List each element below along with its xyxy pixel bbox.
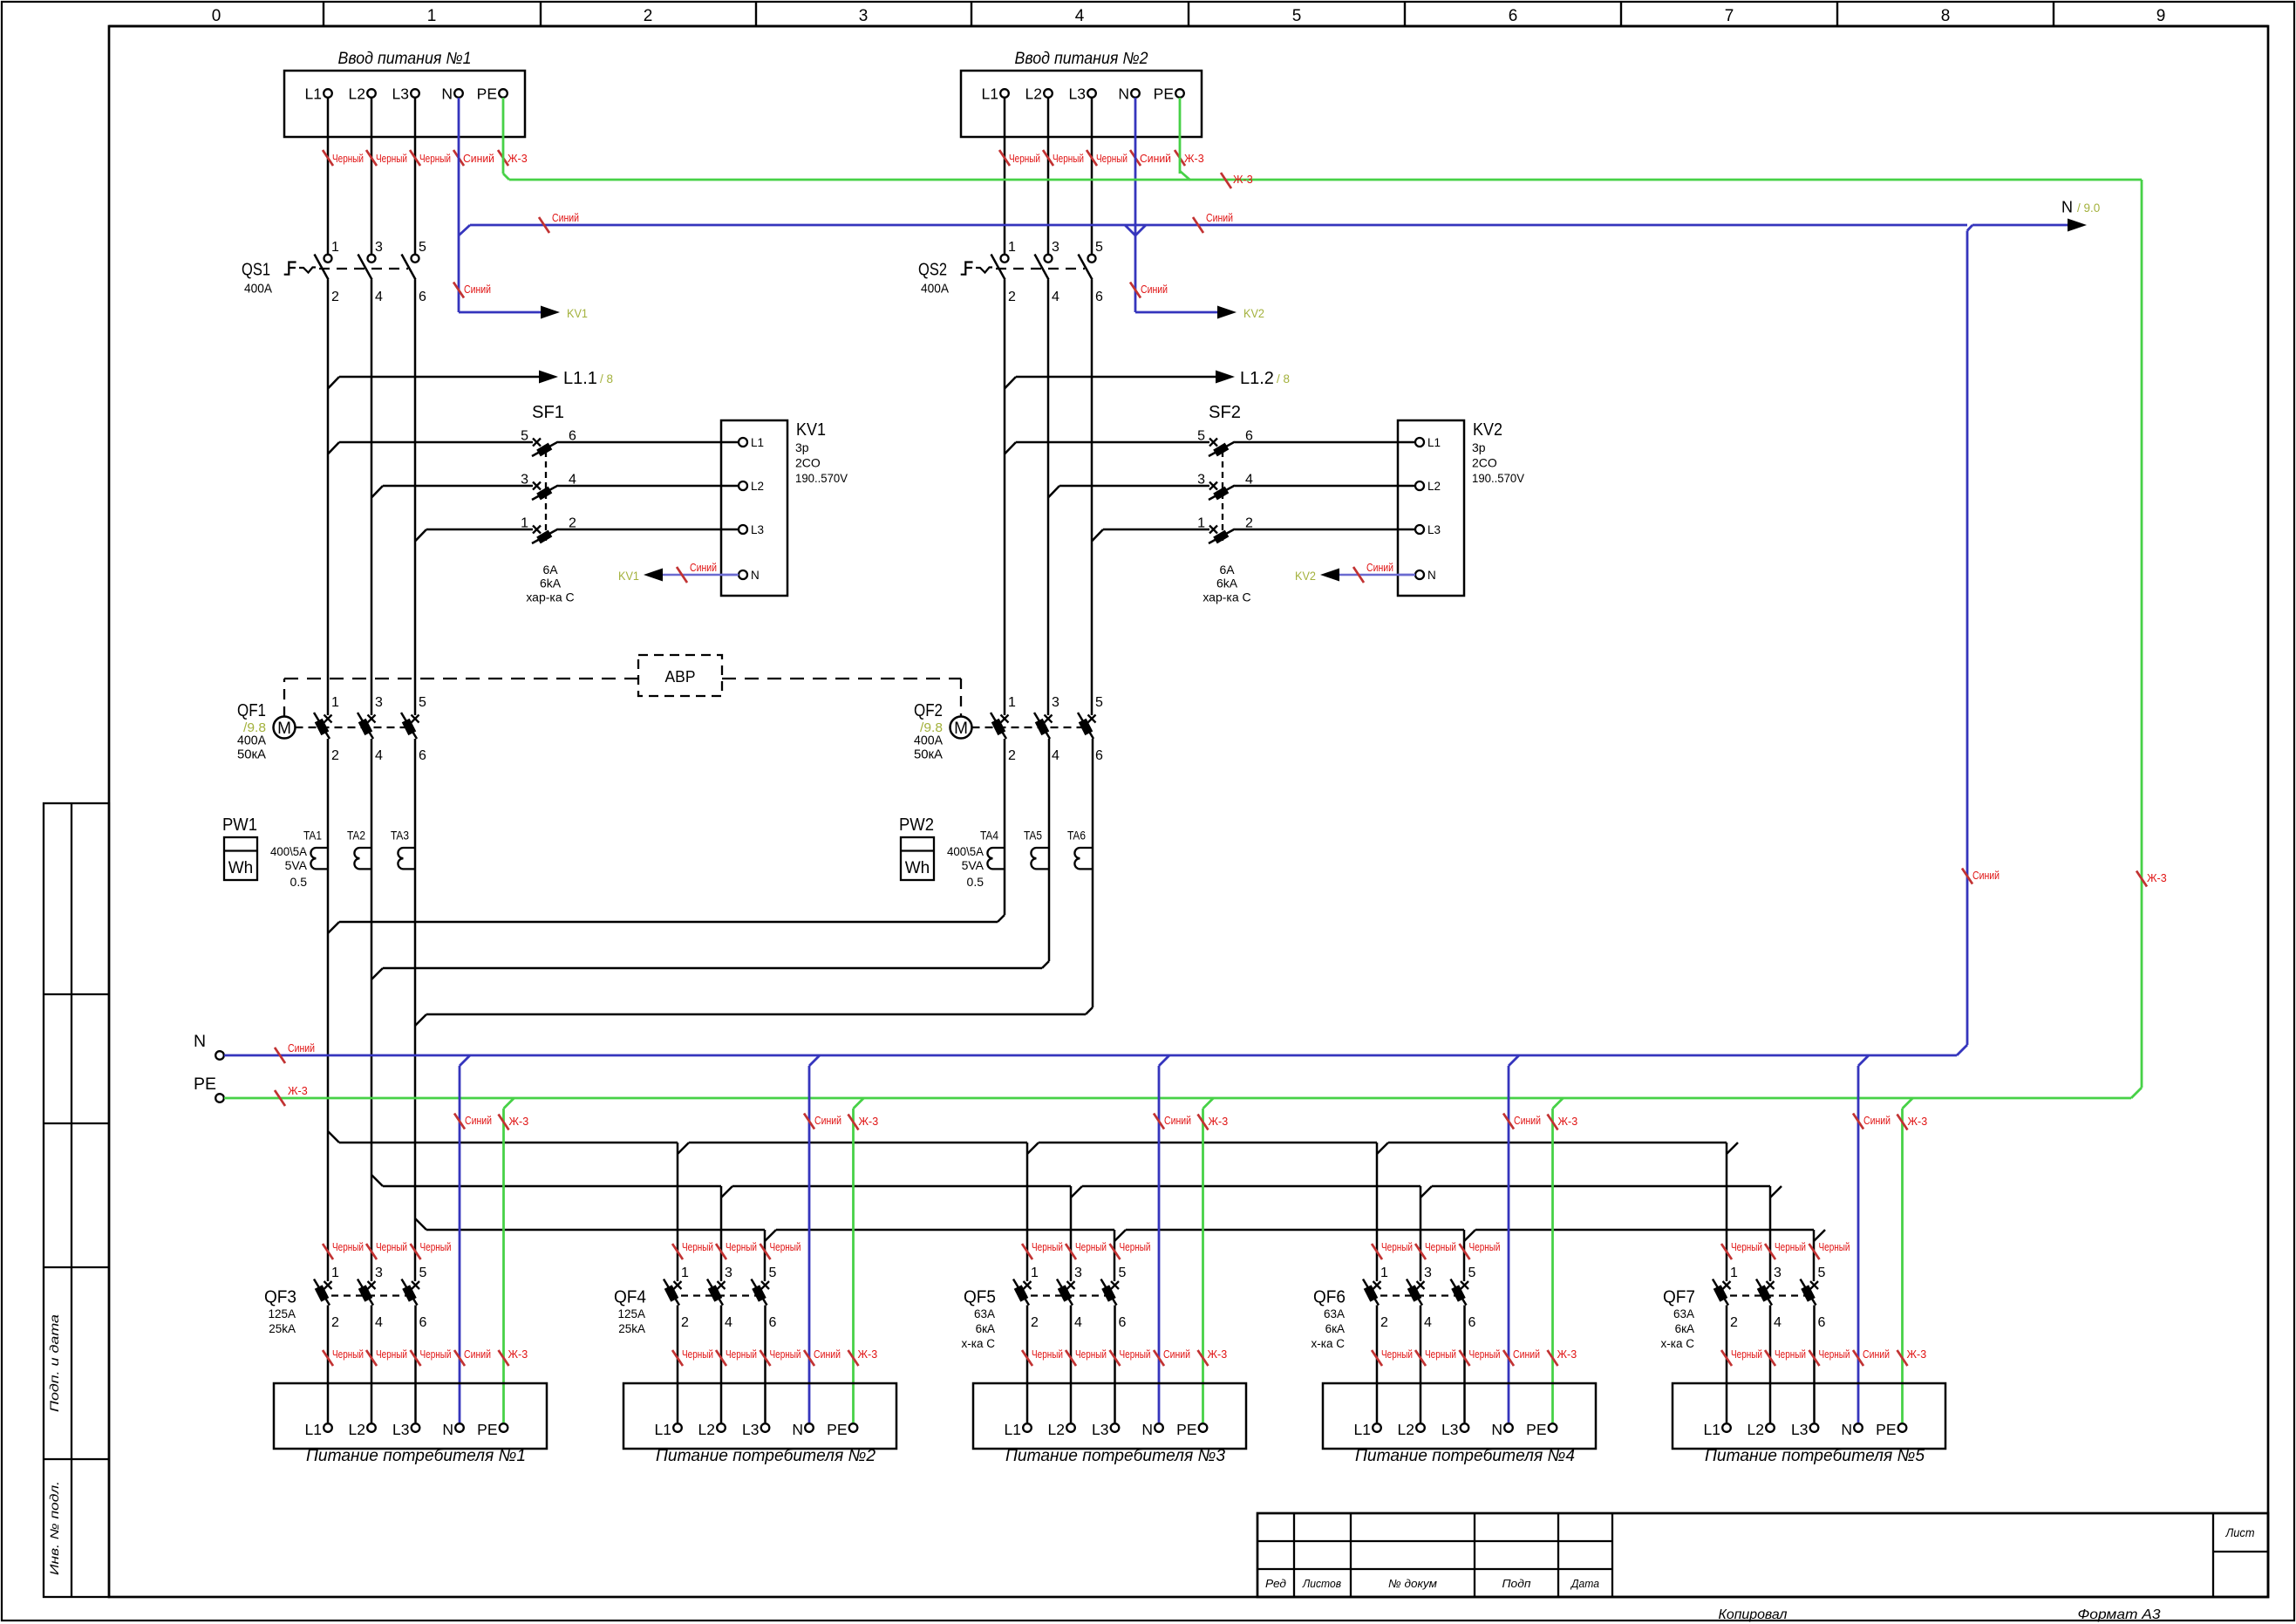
svg-text:TA4: TA4 xyxy=(980,829,998,843)
svg-text:Синий: Синий xyxy=(1863,1115,1891,1127)
svg-text:Питание потребителя №2: Питание потребителя №2 xyxy=(656,1447,875,1465)
input 2 terminal L1 xyxy=(1000,89,1009,98)
switch QS2 drive symbol F xyxy=(961,263,973,275)
consumer 4 terminal L1 xyxy=(1373,1423,1381,1432)
wire input 2 PE (green) down xyxy=(1179,98,1182,174)
consumer 4 terminal L3 xyxy=(1461,1423,1469,1432)
colour callout Ж-3 on PE drop 1 xyxy=(499,1115,509,1130)
svg-text:400A: 400A xyxy=(237,734,266,748)
svg-text:Черный: Черный xyxy=(1032,1241,1063,1253)
svg-text:7: 7 xyxy=(1725,7,1734,25)
consumer 3 terminal L1 xyxy=(1023,1423,1032,1432)
wire QF4 pole 4 to consumer box xyxy=(720,1306,723,1423)
svg-text:400\5A: 400\5A xyxy=(947,844,984,858)
svg-text:Черный: Черный xyxy=(332,153,364,165)
colour callout Синий on N1 vertical xyxy=(453,283,464,298)
svg-text:Синий: Синий xyxy=(464,1348,491,1361)
svg-text:5: 5 xyxy=(1292,7,1302,25)
wire QS2 pole 4 down to QF2 xyxy=(1047,280,1050,716)
colour callout Синий on N drop 4 xyxy=(1503,1114,1514,1129)
wire branch phase 1 to SF1 xyxy=(328,442,339,454)
svg-text:0: 0 xyxy=(212,7,221,25)
svg-text:SF1: SF1 xyxy=(532,403,564,422)
bus PE right vertical (green) down xyxy=(2141,180,2143,1088)
svg-text:5VA: 5VA xyxy=(285,858,308,872)
svg-text:TA2: TA2 xyxy=(347,829,365,843)
svg-text:Ж-3: Ж-3 xyxy=(1558,1116,1578,1128)
svg-text:L3: L3 xyxy=(1427,523,1441,536)
svg-text:2: 2 xyxy=(1008,748,1016,763)
relay KV1 terminal L1 xyxy=(721,441,739,444)
automatic transfer switch ABP box (dashed) xyxy=(638,655,722,696)
svg-text:6A: 6A xyxy=(542,563,558,577)
consumer 1 terminal L1 xyxy=(324,1423,332,1432)
input 2 terminal N xyxy=(1131,89,1140,98)
svg-text:Синий: Синий xyxy=(464,283,491,296)
svg-text:PE: PE xyxy=(477,85,497,103)
svg-text:QF4: QF4 xyxy=(614,1288,646,1307)
breaker SF2 pole 1-2 xyxy=(1209,526,1217,534)
wire input 1 L1 down to QS1 xyxy=(327,98,330,255)
consumer 2 terminal L2 xyxy=(717,1423,726,1432)
consumer 1 terminal L3 xyxy=(412,1423,420,1432)
arrow from KV2 N xyxy=(1320,569,1339,582)
wire branch phase 2 to SF2 xyxy=(1048,486,1059,498)
svg-text:1: 1 xyxy=(427,7,437,25)
switch QS1 linkage dashed line xyxy=(319,268,408,270)
bus PE horizontal (green) top xyxy=(509,179,2142,181)
relay KV2 terminal L1 xyxy=(1398,441,1415,444)
breaker SF2 linkage dashed xyxy=(1222,451,1223,542)
wire PE drop to consumer 5 (green) xyxy=(1903,1098,1913,1109)
svg-text:6кА: 6кА xyxy=(976,1322,995,1335)
svg-text:Черный: Черный xyxy=(1381,1348,1413,1361)
bus PE distribution (green) xyxy=(224,1097,2131,1100)
breaker QF2 pole 1-2 xyxy=(1001,715,1009,723)
svg-text:1: 1 xyxy=(1380,1266,1388,1280)
svg-text:5: 5 xyxy=(1818,1266,1826,1280)
svg-text:L3: L3 xyxy=(742,1421,759,1438)
svg-text:L1.1: L1.1 xyxy=(563,369,597,388)
svg-text:Формат А3: Формат А3 xyxy=(2078,1607,2161,1622)
consumer 3 terminal PE xyxy=(1199,1423,1208,1432)
svg-text:SF2: SF2 xyxy=(1209,403,1241,422)
wire input 1 N (blue) down to KV1 arrow xyxy=(458,235,460,312)
svg-text:Черный: Черный xyxy=(1469,1241,1501,1253)
wire input 2 L3 down to QS2 xyxy=(1091,98,1093,255)
colour callouts Черный below QF4 xyxy=(672,1350,683,1366)
svg-text:N: N xyxy=(792,1421,803,1438)
arrow branch L1.2 xyxy=(1005,377,1016,389)
relay KV1 terminal L2 xyxy=(721,485,739,488)
consumer 5 terminal L3 xyxy=(1810,1423,1819,1432)
svg-text:Черный: Черный xyxy=(1075,1241,1107,1253)
svg-text:L1: L1 xyxy=(305,1421,322,1438)
switch QS1 drive symbol F xyxy=(284,263,296,275)
wire branch phase 2 to SF1 xyxy=(371,486,383,498)
breaker QF2 pole 5-6 xyxy=(1088,715,1096,723)
consumer box Питание потребителя №3 xyxy=(973,1383,1246,1449)
svg-text:PW1: PW1 xyxy=(222,815,257,835)
svg-text:Синий: Синий xyxy=(465,1115,492,1127)
svg-text:6kA: 6kA xyxy=(1216,577,1238,590)
svg-text:Копировал: Копировал xyxy=(1719,1607,1788,1622)
svg-text:400A: 400A xyxy=(921,282,949,297)
svg-text:4: 4 xyxy=(375,290,383,304)
relay KV1 terminal N xyxy=(721,574,739,577)
svg-text:2: 2 xyxy=(681,1315,689,1330)
svg-text:L2: L2 xyxy=(1398,1421,1414,1438)
svg-text:5: 5 xyxy=(1095,695,1103,710)
colour callout Ж-3 on bus PE after input 2 xyxy=(1221,173,1231,188)
wire KV1 N to coil (blue) xyxy=(659,574,739,577)
consumer 2 terminal PE xyxy=(849,1423,858,1432)
svg-text:QF2: QF2 xyxy=(914,701,943,720)
wire input 2 N (blue) down xyxy=(1134,98,1137,235)
svg-text:Ж-3: Ж-3 xyxy=(1208,1348,1228,1361)
svg-text:3: 3 xyxy=(1052,240,1059,255)
wire QF7 pole 2 to consumer box xyxy=(1726,1306,1728,1423)
svg-text:5: 5 xyxy=(419,695,426,710)
svg-text:N: N xyxy=(442,1421,453,1438)
colour callout Синий on right N vertical xyxy=(1962,869,1972,884)
wire KV1 coil feed horizontal xyxy=(459,311,541,314)
svg-text:KV2: KV2 xyxy=(1295,569,1316,583)
consumer 5 terminal L2 xyxy=(1766,1423,1775,1432)
consumer 5 terminal N xyxy=(1854,1423,1863,1432)
svg-text:Синий: Синий xyxy=(1514,1115,1541,1127)
svg-text:Черный: Черный xyxy=(376,1241,407,1253)
colour callouts Черный below QF7 xyxy=(1721,1350,1732,1366)
svg-text:6: 6 xyxy=(1095,748,1103,763)
svg-text:2: 2 xyxy=(1730,1315,1738,1330)
svg-text:Ж-3: Ж-3 xyxy=(1209,1116,1229,1128)
svg-text:Ж-3: Ж-3 xyxy=(2147,872,2167,884)
colour callout Синий on N drop 1 xyxy=(454,1114,465,1129)
svg-text:Синий: Синий xyxy=(814,1115,841,1127)
ruler ticks xyxy=(323,2,324,26)
svg-text:1: 1 xyxy=(331,1266,339,1280)
svg-text:2CO: 2CO xyxy=(795,456,821,470)
svg-text:QF3: QF3 xyxy=(264,1288,296,1307)
svg-text:125A: 125A xyxy=(268,1307,296,1320)
consumer 2 terminal L1 xyxy=(673,1423,682,1432)
svg-text:Черный: Черный xyxy=(1009,153,1040,165)
svg-text:Черный: Черный xyxy=(1096,153,1128,165)
svg-text:6: 6 xyxy=(1095,290,1103,304)
svg-text:хар-ка C: хар-ка C xyxy=(526,590,574,604)
svg-text:2: 2 xyxy=(331,290,339,304)
svg-text:4: 4 xyxy=(1075,7,1085,25)
svg-text:Ввод питания №1: Ввод питания №1 xyxy=(338,50,472,68)
consumer 3 terminal L3 xyxy=(1111,1423,1120,1432)
wire QS1 pole 2 down to QF1 xyxy=(327,280,330,716)
svg-text:N: N xyxy=(194,1032,206,1051)
wire N drop to consumer 4 (blue) xyxy=(1509,1055,1519,1066)
svg-text:QF5: QF5 xyxy=(964,1288,996,1307)
svg-text:PW2: PW2 xyxy=(899,815,934,835)
switch QS2 pole 3-4 xyxy=(1045,255,1053,263)
switch QS1 pole 3-4 xyxy=(368,255,376,263)
svg-text:Ж-3: Ж-3 xyxy=(859,1116,879,1128)
AVR linkage dashed lines xyxy=(283,679,285,717)
svg-text:L3: L3 xyxy=(1092,1421,1108,1438)
colour callout Синий on KV2 N wire xyxy=(1353,567,1364,583)
input 1 terminal L1 xyxy=(324,89,332,98)
svg-text:N: N xyxy=(2061,199,2073,216)
input 1 terminal L3 xyxy=(411,89,419,98)
svg-text:1: 1 xyxy=(1197,516,1205,531)
svg-text:Черный: Черный xyxy=(420,1241,452,1253)
breaker QF2 pole 3-4 xyxy=(1045,715,1053,723)
svg-text:Синий: Синий xyxy=(1972,870,2000,882)
svg-text:/ 8: / 8 xyxy=(600,372,613,386)
svg-text:50кА: 50кА xyxy=(237,747,266,762)
wire QF6 pole 6 to consumer box xyxy=(1463,1306,1466,1423)
svg-text:6: 6 xyxy=(769,1315,777,1330)
svg-text:L3: L3 xyxy=(1069,85,1086,103)
wire QS2 pole 6 down to QF2 xyxy=(1091,280,1093,716)
svg-text:0.5: 0.5 xyxy=(967,875,984,889)
relay KV2 terminal L3 xyxy=(1398,529,1415,531)
svg-text:Черный: Черный xyxy=(1731,1241,1762,1253)
breaker SF1 linkage dashed xyxy=(545,451,547,542)
breaker QF7 linkage dashed xyxy=(1718,1294,1815,1296)
consumer 5 terminal L1 xyxy=(1722,1423,1731,1432)
consumer 2 terminal N xyxy=(805,1423,814,1432)
svg-text:3p: 3p xyxy=(795,440,809,454)
tie wire L1 between QF1 and QF2 outputs xyxy=(328,922,339,933)
breaker QF3 linkage dashed xyxy=(319,1294,416,1296)
ruler bottom line / frame top xyxy=(109,25,2268,28)
svg-text:M: M xyxy=(954,720,968,738)
svg-text:Ж-3: Ж-3 xyxy=(1908,1116,1928,1128)
svg-text:№ докум: № докум xyxy=(1388,1577,1437,1590)
colour callout Синий on N bus xyxy=(275,1047,285,1063)
svg-text:L1: L1 xyxy=(751,436,764,449)
wire input 2 L2 down to QS2 xyxy=(1047,98,1050,255)
svg-text:/ 8: / 8 xyxy=(1277,372,1290,386)
svg-text:3: 3 xyxy=(375,240,383,255)
svg-text:Ж-3: Ж-3 xyxy=(1557,1348,1577,1361)
wire SF1 pole 2 to KV1 xyxy=(558,529,721,531)
colour callout Синий on N drop 5 xyxy=(1853,1114,1863,1129)
svg-text:4: 4 xyxy=(1052,290,1059,304)
svg-text:L2: L2 xyxy=(1427,480,1441,493)
input 1 terminal PE xyxy=(499,89,508,98)
svg-text:1: 1 xyxy=(331,695,339,710)
svg-text:Синий: Синий xyxy=(1863,1348,1890,1361)
wire input 1 L3 down to QS1 xyxy=(414,98,417,255)
svg-text:хар-ка C: хар-ка C xyxy=(1203,590,1250,604)
wire input 2 L1 down to QS2 xyxy=(1004,98,1006,255)
svg-text:QF6: QF6 xyxy=(1313,1288,1346,1307)
bus L1 drops xyxy=(677,1143,679,1281)
svg-text:3: 3 xyxy=(1774,1266,1782,1280)
svg-text:N: N xyxy=(751,569,760,582)
svg-text:L1: L1 xyxy=(305,85,322,103)
svg-text:6кА: 6кА xyxy=(1675,1322,1694,1335)
svg-text:L2: L2 xyxy=(698,1421,715,1438)
svg-text:190..570V: 190..570V xyxy=(795,471,848,485)
svg-text:TA5: TA5 xyxy=(1024,829,1042,843)
wire QF5 pole 4 to consumer box xyxy=(1070,1306,1073,1423)
wire SF2 pole 4 to KV2 xyxy=(1235,485,1398,488)
breaker QF6 linkage dashed xyxy=(1368,1294,1465,1296)
svg-text:63A: 63A xyxy=(1324,1307,1345,1320)
consumer 4 terminal PE xyxy=(1549,1423,1557,1432)
wire QF6 pole 2 to consumer box xyxy=(1376,1306,1379,1423)
svg-text:N: N xyxy=(1141,1421,1153,1438)
switch QS2 pole 1-2 xyxy=(1001,255,1009,263)
svg-text:L2: L2 xyxy=(1025,85,1042,103)
colour callouts Черный below QF3 xyxy=(323,1350,333,1366)
svg-text:4: 4 xyxy=(725,1315,732,1330)
svg-text:2: 2 xyxy=(644,7,653,25)
svg-text:Черный: Черный xyxy=(1731,1348,1762,1361)
svg-text:6: 6 xyxy=(419,290,426,304)
svg-text:Синий: Синий xyxy=(1366,562,1393,574)
svg-text:Питание потребителя №4: Питание потребителя №4 xyxy=(1355,1447,1575,1465)
wire QS1 pole 6 down to QF1 xyxy=(414,280,417,716)
wire QF2 pole6 down xyxy=(1092,739,1094,1007)
svg-text:L1: L1 xyxy=(1005,1421,1021,1438)
colour callout Ж-3 on PE bus xyxy=(275,1090,285,1106)
breaker SF1 pole 5-6 xyxy=(533,439,541,447)
svg-text:Синий: Синий xyxy=(1164,1115,1191,1127)
left column boxes xyxy=(44,803,109,1597)
input 2 terminal L2 xyxy=(1044,89,1053,98)
svg-text:Черный: Черный xyxy=(770,1348,801,1361)
svg-text:2: 2 xyxy=(331,748,339,763)
colour callout Синий on N drop 3 xyxy=(1154,1114,1164,1129)
relay KV2 box xyxy=(1398,420,1464,596)
colour callout Ж-3 on PE drop 4 xyxy=(1548,1115,1558,1130)
tie wire L3 between QF1 and QF2 outputs xyxy=(415,1014,426,1026)
bus N continuation arrow to sheet 9 xyxy=(1972,224,2068,227)
svg-text:2: 2 xyxy=(1380,1315,1388,1330)
svg-text:1: 1 xyxy=(1008,240,1016,255)
svg-text:х-ка С: х-ка С xyxy=(1661,1337,1695,1350)
svg-text:L1: L1 xyxy=(1427,436,1441,449)
input box Ввод питания №1 xyxy=(284,71,525,137)
consumer 5 terminal PE xyxy=(1898,1423,1907,1432)
wire input 2 N (blue) down to KV2 arrow xyxy=(1134,235,1137,312)
wire PE drop to consumer 2 (green) xyxy=(854,1098,864,1109)
svg-text:N: N xyxy=(1427,569,1436,582)
svg-text:Черный: Черный xyxy=(1075,1348,1107,1361)
bus N distribution (blue) xyxy=(224,1054,1957,1057)
svg-text:6A: 6A xyxy=(1219,563,1235,577)
svg-text:5: 5 xyxy=(419,240,426,255)
svg-text:QF1: QF1 xyxy=(237,701,266,720)
svg-text:5: 5 xyxy=(1095,240,1103,255)
switch QS1 pole 1-2 xyxy=(324,255,332,263)
wire input 1 N (blue) down xyxy=(458,98,460,235)
svg-text:Питание потребителя №1: Питание потребителя №1 xyxy=(306,1447,526,1465)
svg-text:L2: L2 xyxy=(349,85,365,103)
svg-text:5: 5 xyxy=(419,1266,427,1280)
svg-text:PE: PE xyxy=(1176,1421,1196,1438)
input 1 terminal N xyxy=(454,89,463,98)
svg-text:Черный: Черный xyxy=(1469,1348,1501,1361)
bus L1 distribution to consumers xyxy=(328,1131,339,1143)
colour callouts Черный below QF5 xyxy=(1022,1350,1032,1366)
svg-text:L2: L2 xyxy=(1048,1421,1065,1438)
svg-text:Питание потребителя №5: Питание потребителя №5 xyxy=(1705,1447,1925,1465)
svg-text:4: 4 xyxy=(375,748,383,763)
svg-text:Черный: Черный xyxy=(1819,1348,1850,1361)
wire QS2 pole 2 down to QF2 xyxy=(1004,280,1006,716)
svg-text:Черный: Черный xyxy=(1425,1241,1456,1253)
consumer 2 terminal L3 xyxy=(761,1423,770,1432)
svg-text:KV1: KV1 xyxy=(796,420,826,440)
svg-text:Лист: Лист xyxy=(2225,1525,2255,1539)
svg-text:Черный: Черный xyxy=(1775,1241,1806,1253)
svg-text:Синий: Синий xyxy=(1141,283,1168,296)
wire PE drop to consumer 3 (green) xyxy=(1203,1098,1214,1109)
wire QF5 pole 2 to consumer box xyxy=(1026,1306,1029,1423)
arrow from KV1 N xyxy=(644,569,663,582)
svg-text:6: 6 xyxy=(1468,1315,1476,1330)
svg-text:Ж-3: Ж-3 xyxy=(858,1348,878,1361)
svg-text:N: N xyxy=(441,85,453,103)
bus L3 drops xyxy=(764,1230,766,1281)
colour callout Синий on N drop 2 xyxy=(804,1114,814,1129)
svg-text:3: 3 xyxy=(1052,695,1059,710)
wire QS1 pole 4 down to QF1 xyxy=(371,280,373,716)
svg-text:3: 3 xyxy=(859,7,869,25)
svg-text:Синий: Синий xyxy=(814,1348,841,1361)
svg-text:25kA: 25kA xyxy=(618,1322,645,1335)
svg-text:8: 8 xyxy=(1941,7,1951,25)
svg-text:Ввод питания №2: Ввод питания №2 xyxy=(1015,50,1148,68)
arrow to KV2 xyxy=(1217,306,1237,319)
wire QF7 pole 4 to consumer box xyxy=(1769,1306,1772,1423)
colour callout Ж-3 on PE drop 2 xyxy=(848,1115,859,1130)
svg-text:Ж-3: Ж-3 xyxy=(508,1348,528,1361)
svg-text:Черный: Черный xyxy=(419,153,451,165)
wire N drop to consumer 5 (blue) xyxy=(1858,1055,1869,1066)
wire SF1 pole 4 to KV1 xyxy=(558,485,721,488)
svg-text:Черный: Черный xyxy=(1032,1348,1063,1361)
svg-text:Ж-3: Ж-3 xyxy=(1184,153,1204,165)
svg-text:L1: L1 xyxy=(1704,1421,1720,1438)
colour callout Ж-3 on right PE vertical xyxy=(2136,871,2147,887)
svg-text:4: 4 xyxy=(1424,1315,1432,1330)
svg-text:KV2: KV2 xyxy=(1243,306,1264,320)
svg-text:2: 2 xyxy=(331,1315,339,1330)
svg-text:Черный: Черный xyxy=(1425,1348,1456,1361)
svg-text:6кА: 6кА xyxy=(1325,1322,1345,1335)
svg-text:L1: L1 xyxy=(1354,1421,1371,1438)
svg-text:4: 4 xyxy=(375,1315,383,1330)
meter PW2 box Wh xyxy=(901,837,934,880)
svg-text:KV1: KV1 xyxy=(618,569,639,583)
input box Ввод питания №2 xyxy=(961,71,1202,137)
svg-text:5: 5 xyxy=(521,429,528,444)
colour callout Синий on N2 vertical xyxy=(1130,283,1141,298)
bus N horizontal (blue) top xyxy=(470,224,1967,227)
wire joint PE2 to bus PE xyxy=(1180,171,1190,181)
svg-text:Синий: Синий xyxy=(690,562,717,574)
svg-text:KV1: KV1 xyxy=(567,306,588,320)
svg-text:4: 4 xyxy=(1074,1315,1082,1330)
consumer box Питание потребителя №1 xyxy=(274,1383,547,1449)
wire SF2 pole 2 to KV2 xyxy=(1235,529,1398,531)
consumer 3 terminal N xyxy=(1155,1423,1163,1432)
svg-text:TA3: TA3 xyxy=(391,829,409,843)
